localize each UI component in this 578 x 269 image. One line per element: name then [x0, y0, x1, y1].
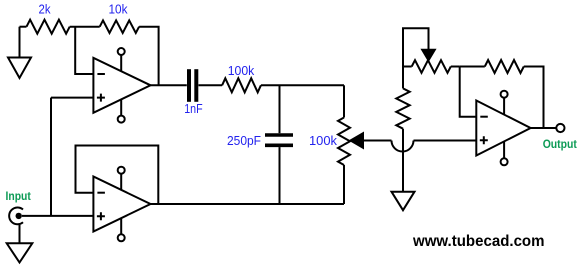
svg-text:Input: Input	[6, 189, 31, 203]
P2 wiper loop	[403, 28, 429, 66]
svg-text:www.tubecad.com: www.tubecad.com	[412, 233, 544, 250]
resistor R4	[402, 67, 404, 89]
node A / wire to U1 inverting input	[75, 27, 93, 74]
svg-text:100k: 100k	[228, 64, 255, 78]
svg-text:250pF: 250pF	[227, 134, 261, 148]
capacitor C1 1nF	[187, 69, 191, 102]
wire U1 output	[151, 84, 187, 86]
ground G2	[19, 224, 21, 243]
svg-text:100k: 100k	[309, 134, 338, 148]
wire R4 to ground through hop	[402, 129, 404, 192]
ground G3	[392, 192, 415, 211]
op-amp U2	[93, 177, 150, 232]
resistor R1 2k	[20, 26, 27, 28]
wire C1 to R3	[199, 84, 223, 86]
resistor R2 10k	[100, 20, 139, 33]
wire U1 + input from input node	[51, 97, 93, 99]
U2 feedback loop	[76, 146, 159, 205]
wire feedback R2 to U1 output	[139, 27, 159, 86]
input jack J1	[9, 208, 23, 225]
wire node C to U3 inverting input	[460, 67, 477, 117]
ground G1	[19, 27, 21, 58]
wire wiper with hop over vertical	[363, 140, 392, 142]
wire R3 to pot top / node B	[261, 84, 344, 86]
svg-text:1nF: 1nF	[184, 102, 203, 116]
trimmer pot P2	[412, 60, 451, 73]
wire jack to U2 + input	[22, 215, 93, 217]
P1 wiper arrow	[351, 133, 364, 148]
resistor R3 100k	[222, 78, 261, 92]
svg-text:2k: 2k	[39, 3, 52, 17]
potentiometer P1 100k	[343, 85, 345, 117]
wire R5 to output node	[524, 67, 544, 129]
op-amp U1	[93, 58, 150, 113]
P2 wiper arrow	[422, 50, 435, 61]
wire P2 left to zigzag	[403, 66, 412, 68]
svg-text:Output: Output	[543, 137, 577, 151]
svg-text:10k: 10k	[109, 3, 129, 17]
output terminal	[556, 124, 564, 132]
capacitor C2 250pF	[279, 85, 281, 133]
wire U3 output to terminal	[531, 127, 557, 129]
wire P2 right / node C	[451, 66, 460, 68]
wire bottom rail U2 output to P1 bottom	[151, 203, 345, 205]
op-amp U3	[476, 101, 530, 156]
resistor R5 feedback	[460, 66, 485, 68]
